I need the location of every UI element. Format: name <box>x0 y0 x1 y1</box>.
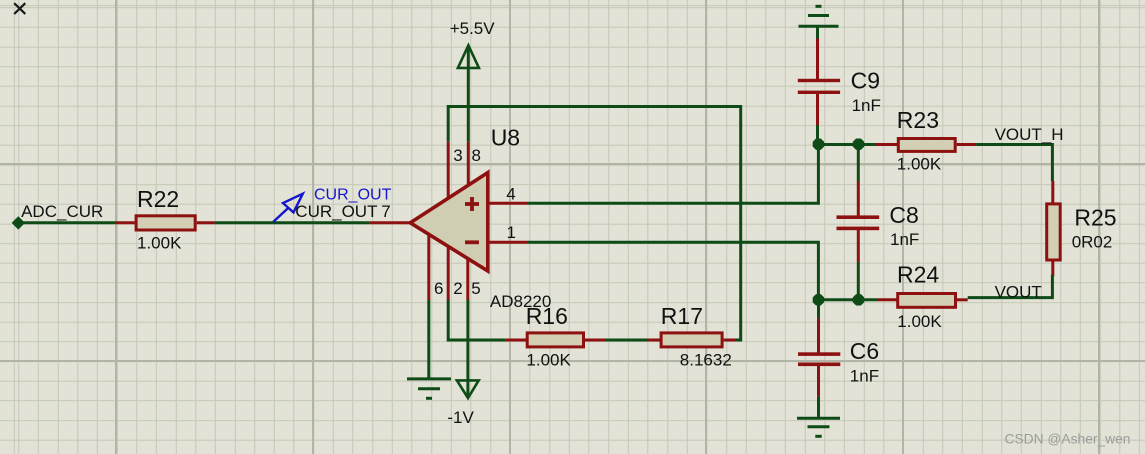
svg-text:8.1632: 8.1632 <box>680 351 732 370</box>
svg-text:1.00K: 1.00K <box>137 233 182 252</box>
svg-text:4: 4 <box>506 184 515 203</box>
svg-text:1.00K: 1.00K <box>897 155 942 174</box>
svg-text:C9: C9 <box>851 68 880 94</box>
svg-text:C8: C8 <box>889 202 918 228</box>
svg-text:R23: R23 <box>897 107 939 133</box>
svg-text:1.00K: 1.00K <box>897 312 942 331</box>
svg-text:CSDN @Asher_wen: CSDN @Asher_wen <box>1005 432 1131 447</box>
svg-text:C6: C6 <box>850 338 879 364</box>
svg-text:5: 5 <box>471 279 480 298</box>
svg-text:CUR_OUT: CUR_OUT <box>295 202 377 221</box>
svg-text:1.00K: 1.00K <box>526 351 571 370</box>
svg-text:0R02: 0R02 <box>1072 233 1113 252</box>
svg-text:R22: R22 <box>137 186 179 212</box>
svg-text:R24: R24 <box>897 261 939 287</box>
svg-text:1nF: 1nF <box>850 366 879 385</box>
svg-text:2: 2 <box>453 279 462 298</box>
svg-text:6: 6 <box>434 279 443 298</box>
svg-text:1nF: 1nF <box>890 230 919 249</box>
svg-text:8: 8 <box>472 146 481 165</box>
svg-text:VOUT: VOUT <box>995 282 1042 301</box>
svg-text:-1V: -1V <box>447 408 474 427</box>
svg-text:7: 7 <box>381 202 390 221</box>
svg-text:+5.5V: +5.5V <box>450 19 496 38</box>
svg-text:VOUT_H: VOUT_H <box>995 125 1064 144</box>
svg-text:ADC_CUR: ADC_CUR <box>21 202 103 221</box>
svg-text:3: 3 <box>453 146 462 165</box>
svg-text:R17: R17 <box>661 303 703 329</box>
svg-text:AD8220: AD8220 <box>490 292 551 311</box>
svg-text:R25: R25 <box>1074 205 1116 231</box>
svg-text:U8: U8 <box>491 125 520 151</box>
svg-text:CUR_OUT: CUR_OUT <box>314 186 392 203</box>
svg-text:1nF: 1nF <box>852 96 881 115</box>
svg-text:1: 1 <box>507 223 516 242</box>
